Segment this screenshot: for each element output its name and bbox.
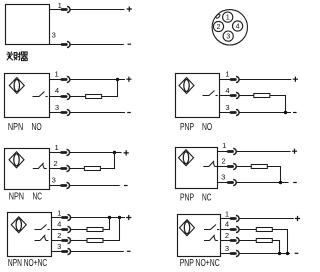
connector pin 3 (NPN NC) <box>62 182 70 188</box>
terminal - (PNP NO) <box>293 112 297 114</box>
junction A (PNP NO+NC) <box>278 252 281 255</box>
svg-text:3: 3 <box>57 242 61 251</box>
wire from load down to wire 3 (PNP NO) <box>270 96 286 113</box>
junction (PNP NO) <box>284 111 287 114</box>
switch NC contact (NPN NC) <box>33 163 47 169</box>
svg-text:NO: NO <box>32 122 42 133</box>
wire 2 stub (PNP NC) <box>218 166 229 168</box>
connector pin 2 (NPN NC) <box>62 165 70 171</box>
svg-text:NPN NO+NC: NPN NO+NC <box>8 258 47 269</box>
switch NC contact (NPN NO+NC) <box>35 235 49 241</box>
connector pin 1 (PNP NO+NC) <box>231 215 239 221</box>
wire from load to junction (NPN NC) <box>100 153 114 169</box>
switch NC contact (PNP NO+NC) <box>204 235 218 241</box>
wire 1 (NPN NO) to + <box>70 79 125 81</box>
wire 1 stub (NPN NC) <box>50 152 62 154</box>
junction B (NPN NO+NC) <box>118 216 121 219</box>
svg-text:NPN: NPN <box>9 192 24 203</box>
terminal - (NPN NO+NC) <box>127 250 131 252</box>
terminal - (PNP NO+NC) <box>295 252 299 254</box>
svg-text:PNP: PNP <box>180 193 194 204</box>
junction B (PNP NO+NC) <box>286 252 289 255</box>
wire 3 (PNP NC) to - <box>237 182 289 184</box>
svg-text:NC: NC <box>202 193 212 204</box>
switch NO contact (PNP NO) <box>203 91 218 96</box>
svg-text:1: 1 <box>226 13 230 22</box>
svg-text:3: 3 <box>52 175 56 184</box>
sensor symbol (NPN NO) <box>9 78 24 94</box>
connector pin 1 (PNP NO) <box>231 76 239 82</box>
wire 4 stub (NPN NO+NC) <box>52 229 63 231</box>
junction (NPN NC) <box>113 151 116 154</box>
sensor symbol (NPN NO+NC) <box>11 217 26 233</box>
svg-text:1: 1 <box>222 141 226 150</box>
switch NC contact (PNP NC) <box>203 161 217 167</box>
wire 2 stub (NPN NO+NC) <box>52 240 63 242</box>
wire 3 (PNP NO) to - <box>240 112 292 114</box>
wire 1 (PNP NC) to + <box>237 151 291 153</box>
wire 1 (NPN NC) to + <box>70 152 122 154</box>
M8 connector pin 3 <box>223 31 233 41</box>
wire 3 stub (transmitter) <box>50 44 63 46</box>
switch NO contact (NPN NO) <box>33 92 48 97</box>
load resistor (NPN NO) <box>86 95 102 99</box>
svg-text:4: 4 <box>236 22 240 31</box>
svg-text:3: 3 <box>55 103 59 112</box>
connector pin 3 (NPN NO+NC) <box>63 248 71 254</box>
load resistor (PNP NC) <box>251 165 267 169</box>
wire 1 stub (transmitter) <box>50 9 63 11</box>
wire 2 stub (NPN NC) <box>50 168 62 170</box>
M8 connector pin 4 <box>233 21 243 31</box>
wire 3 (NPN NO+NC) to - <box>71 251 124 253</box>
terminal + (NPN NO) <box>126 77 131 82</box>
wire from load 4 to junction A (NPN NO+NC) <box>103 218 110 230</box>
wire from load 2 down to wire 3 (PNP NO+NC) <box>272 241 279 254</box>
sensor symbol (PNP NO) <box>179 78 194 94</box>
wire 3 stub (NPN NC) <box>50 185 62 187</box>
wire 1 stub (PNP NO+NC) <box>221 218 232 220</box>
svg-text:1: 1 <box>225 69 229 78</box>
M8 connector pin 2 <box>213 21 223 31</box>
wire 4 stub (PNP NO) <box>220 95 232 97</box>
wire 3 (transmitter) to - <box>71 44 124 46</box>
load resistor on wire 2 (NPN NO+NC) <box>87 239 103 243</box>
sensor U2 body (NPN NO) <box>5 74 50 118</box>
svg-text:4: 4 <box>225 86 229 95</box>
sensor symbol (PNP NC) <box>179 150 194 166</box>
connector pin 3 (transmitter) <box>62 41 70 47</box>
M8 connector pin 1 <box>223 12 233 22</box>
load resistor (NPN NC) <box>84 167 100 171</box>
wire 2 (NPN NO+NC) to load <box>71 240 87 242</box>
wire 4 (PNP NO) to load <box>240 95 254 97</box>
sensor symbol (PNP NO+NC) <box>180 220 195 236</box>
wire 3 stub (PNP NC) <box>218 182 229 184</box>
junction (PNP NC) <box>279 181 282 184</box>
load resistor on wire 2 (PNP NO+NC) <box>256 239 272 243</box>
connector pin 3 (PNP NO) <box>231 109 239 115</box>
connector pin 1 (transmitter) <box>62 6 70 12</box>
sensor symbol (NPN NC) <box>9 152 24 168</box>
wire 2 (PNP NC) to load <box>237 166 252 168</box>
svg-text:1: 1 <box>54 143 58 152</box>
wire 3 (NPN NC) to - <box>70 185 120 187</box>
wire 1 (PNP NO+NC) to + <box>240 218 294 220</box>
svg-text:2: 2 <box>53 159 57 168</box>
junction A (NPN NO+NC) <box>108 216 111 219</box>
svg-text:3: 3 <box>221 173 225 182</box>
wire 4 stub (NPN NO) <box>50 96 62 98</box>
svg-text:PNP NO+NC: PNP NO+NC <box>180 258 220 269</box>
load resistor on wire 4 (PNP NO+NC) <box>256 228 272 232</box>
wire 3 (NPN NO) to - <box>70 112 125 114</box>
wire from load 4 down to wire 3 (PNP NO+NC) <box>272 230 287 254</box>
connector pin 3 (NPN NO) <box>62 109 70 115</box>
svg-text:2: 2 <box>57 231 61 240</box>
svg-text:4: 4 <box>55 86 59 95</box>
terminal + (PNP NO) <box>293 77 298 82</box>
connector pin 4 (PNP NO) <box>231 92 239 98</box>
terminal - (transmitter) <box>128 43 132 45</box>
load resistor (PNP NO) <box>254 94 270 98</box>
terminal - (PNP NC) <box>293 182 297 184</box>
svg-text:3: 3 <box>226 32 230 41</box>
connector pin 4 (PNP NO+NC) <box>231 226 239 232</box>
wire 4 (PNP NO+NC) to load <box>240 229 257 231</box>
svg-text:2: 2 <box>221 157 225 166</box>
connector pin 4 (NPN NO+NC) <box>63 226 71 232</box>
svg-text:1: 1 <box>54 69 58 78</box>
wire 4 (NPN NO) to load <box>70 96 85 98</box>
svg-text:4: 4 <box>57 220 61 229</box>
connector pin 2 (PNP NO+NC) <box>231 237 239 243</box>
terminal + (PNP NC) <box>292 149 297 154</box>
connector pin 4 (NPN NO) <box>62 93 70 99</box>
sensor U3 body (PNP NO) <box>176 74 220 118</box>
svg-text:2: 2 <box>217 22 221 31</box>
wire 1 (PNP NO) to + <box>240 79 292 81</box>
wire 3 stub (NPN NO) <box>50 112 62 114</box>
connector pin 3 (PNP NC) <box>228 179 236 185</box>
terminal + (PNP NO+NC) <box>295 216 300 221</box>
wire 1 (transmitter) to + <box>71 9 125 11</box>
wire 1 stub (PNP NO) <box>220 79 232 81</box>
sensor U5 body (PNP NC) <box>176 148 218 189</box>
label 发射器 glyph 发 <box>7 52 14 61</box>
connector pin 2 (NPN NO+NC) <box>63 237 71 243</box>
M8 connector outline <box>212 10 247 45</box>
connector pin 2 (PNP NC) <box>228 163 236 169</box>
svg-text:2: 2 <box>225 231 229 240</box>
wire 3 stub (NPN NO+NC) <box>52 251 63 253</box>
connector pin 1 (NPN NO+NC) <box>63 214 71 220</box>
transmitter box 发射器 <box>6 5 50 45</box>
connector pin 1 (NPN NO) <box>62 76 70 82</box>
terminal + (transmitter) <box>127 6 132 11</box>
terminal - (NPN NO) <box>127 112 131 114</box>
sensor U6 body (NPN NO+NC) <box>8 213 52 257</box>
wire from load 2 to junction B (NPN NO+NC) <box>103 218 120 241</box>
wire 4 stub (PNP NO+NC) <box>221 229 232 231</box>
wire 3 stub (PNP NO+NC) <box>221 253 232 255</box>
load resistor on wire 4 (NPN NO+NC) <box>87 228 103 232</box>
M8 connector keying notch <box>215 14 220 19</box>
wire 1 stub (NPN NO+NC) <box>52 217 63 219</box>
terminal + (NPN NC) <box>124 150 129 155</box>
svg-text:NC: NC <box>33 192 43 203</box>
wire from load down to wire 3 (PNP NC) <box>267 167 280 183</box>
wire from load to junction (NPN NO) <box>102 80 118 97</box>
wire 3 stub (PNP NO) <box>220 112 232 114</box>
connector pin 3 (PNP NO+NC) <box>231 250 239 256</box>
svg-text:NPN: NPN <box>8 122 23 133</box>
wire 1 (NPN NO+NC) to + <box>71 217 125 219</box>
svg-text:PNP: PNP <box>180 122 194 133</box>
junction (NPN NO) <box>116 78 119 81</box>
wire 2 (NPN NC) to load <box>70 168 84 170</box>
terminal - (NPN NC) <box>124 185 128 187</box>
connector pin 1 (PNP NC) <box>228 148 236 154</box>
switch NO contact (PNP NO+NC) <box>204 225 219 230</box>
wire 2 stub (PNP NO+NC) <box>221 240 232 242</box>
wire 2 (PNP NO+NC) to load <box>240 240 257 242</box>
wire 1 stub (PNP NC) <box>218 151 229 153</box>
svg-text:1: 1 <box>225 210 229 219</box>
connector pin 1 (NPN NC) <box>62 149 70 155</box>
wire 3 (PNP NO+NC) to - <box>240 253 291 255</box>
svg-text:4: 4 <box>225 219 229 228</box>
svg-text:3: 3 <box>52 31 56 40</box>
svg-text:3: 3 <box>225 244 229 253</box>
svg-text:NO: NO <box>202 122 212 133</box>
switch NO contact (NPN NO+NC) <box>35 225 50 230</box>
svg-text:3: 3 <box>225 103 229 112</box>
label 发射器 glyph 器 <box>21 52 27 61</box>
wire 4 (NPN NO+NC) to load <box>71 229 87 231</box>
wire 1 stub (NPN NO) <box>50 79 62 81</box>
terminal + (NPN NO+NC) <box>126 215 131 220</box>
svg-text:1: 1 <box>57 208 61 217</box>
sensor U7 body (PNP NO+NC) <box>178 215 221 257</box>
label 射 glyph 射 <box>14 52 21 61</box>
sensor U4 body (NPN NC) <box>5 149 50 190</box>
